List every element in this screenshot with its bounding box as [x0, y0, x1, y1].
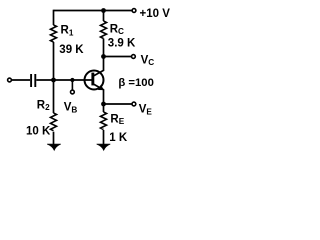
VC terminal [132, 55, 136, 59]
wire right rail top segment [103, 10, 105, 21]
node VE junction [101, 102, 106, 107]
wire top rail [54, 10, 133, 12]
node VB probe junction [70, 78, 74, 82]
svg-text:+10 V: +10 V [140, 8, 171, 20]
transistor Q1 circle [85, 71, 104, 90]
svg-text:39 K: 39 K [59, 44, 84, 56]
input terminal [8, 78, 12, 82]
wire left rail base node to R2 [53, 80, 55, 113]
transistor Q1 base bar [91, 73, 94, 86]
node VC junction [101, 54, 106, 59]
VE terminal [132, 102, 136, 106]
wire RE to ground [103, 130, 105, 145]
VB terminal [71, 90, 75, 94]
wire right rail VE to RE [103, 104, 105, 112]
wire VE node to terminal [104, 103, 133, 105]
resistor RE [101, 112, 107, 129]
transistor Q1 collector lead [94, 57, 104, 76]
wire VC node to terminal [104, 56, 132, 58]
transistor Q1 emitter arrow [98, 85, 104, 90]
ground (R2) [47, 144, 61, 150]
capacitor C1 plate right [34, 74, 36, 87]
resistor R2 [51, 113, 57, 131]
svg-text:3.9 K: 3.9 K [108, 38, 136, 50]
wire left rail mid segment [53, 42, 55, 80]
capacitor C1 plate left [30, 74, 32, 87]
wire left rail top segment [53, 10, 55, 25]
resistor R1 [51, 25, 57, 42]
wire base line (capacitor to transistor base) [36, 79, 91, 81]
svg-text:10 K: 10 K [26, 126, 51, 138]
wire R2 to ground [53, 132, 55, 145]
node junction top (Vcc rail meets RC branch) [101, 8, 106, 13]
transistor Q1 emitter lead [94, 84, 104, 104]
svg-text:1 K: 1 K [109, 132, 128, 144]
wire input to capacitor [12, 79, 30, 81]
wire right rail RC to VC node [103, 39, 105, 57]
node base junction (left rail meets base wire) [51, 78, 56, 83]
wire VB stub [71, 80, 73, 90]
svg-text:β =100: β =100 [118, 77, 153, 89]
resistor RC [101, 21, 107, 39]
ground (emitter) [97, 144, 111, 150]
+10 V supply terminal [132, 9, 136, 13]
